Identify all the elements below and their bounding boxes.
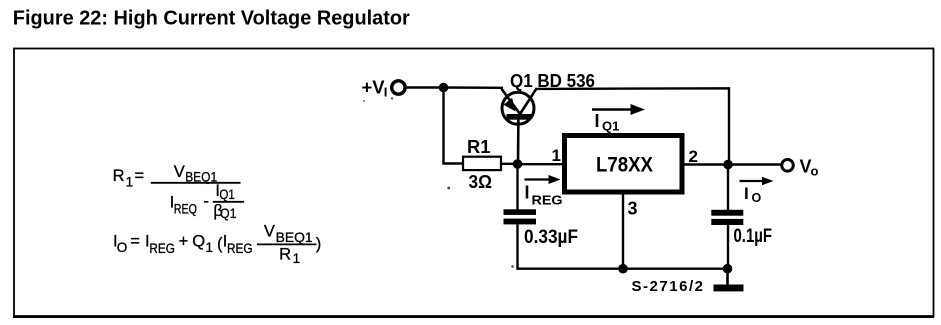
svg-text:I: I xyxy=(744,184,749,203)
svg-text:Q1: Q1 xyxy=(219,187,235,202)
label IQ1 xyxy=(595,111,620,134)
svg-text:=: = xyxy=(135,167,145,185)
wire +VI terminal to input junction xyxy=(405,86,443,88)
svg-text:2: 2 xyxy=(689,147,698,166)
svg-text:V: V xyxy=(174,163,185,181)
label Q1 BD 536 xyxy=(510,71,595,91)
wire C1 to ground rail xyxy=(516,224,518,268)
svg-text:3: 3 xyxy=(628,199,638,219)
wire input junction down to R1 left lead xyxy=(444,88,464,164)
wire node 1 down to C1 xyxy=(516,164,518,210)
svg-text:0.1µF: 0.1µF xyxy=(734,226,773,247)
wire C2 to ground rail xyxy=(727,225,729,269)
svg-text:I: I xyxy=(595,111,600,131)
svg-text:0.33µF: 0.33µF xyxy=(524,227,578,248)
formula R1 = VBEQ1 / (IREQ - IQ1/betaQ1) xyxy=(113,163,244,221)
svg-text:O: O xyxy=(752,191,762,205)
node +VI input terminal xyxy=(392,81,405,94)
svg-text:1: 1 xyxy=(552,146,561,165)
label L78XX xyxy=(596,154,653,177)
label R1 xyxy=(467,137,491,157)
pin 3 label xyxy=(628,199,638,219)
wire Q1 base down to node 1 xyxy=(517,118,520,164)
svg-text:+V: +V xyxy=(362,77,386,98)
svg-text:L78XX: L78XX xyxy=(596,154,653,177)
svg-text:1: 1 xyxy=(206,240,214,255)
svg-text:o: o xyxy=(811,164,819,179)
svg-text:1: 1 xyxy=(293,251,301,266)
capacitor C1 xyxy=(504,209,537,224)
svg-text:I: I xyxy=(384,85,388,100)
svg-text:O: O xyxy=(117,240,128,255)
svg-text:Figure 22: High Current Voltag: Figure 22: High Current Voltage Regulato… xyxy=(13,8,410,30)
wire pin 2 to VO terminal xyxy=(684,163,782,165)
wire R1 right lead to node 1 xyxy=(501,163,518,165)
junction output node xyxy=(723,160,733,170)
label IREG xyxy=(525,183,563,208)
svg-text:BEQ1: BEQ1 xyxy=(276,230,313,245)
junction pin 3 ground xyxy=(618,264,628,274)
wire pin 3 to ground rail xyxy=(622,194,624,269)
svg-text:REG: REG xyxy=(149,241,175,256)
label S-2716/2 xyxy=(632,278,704,295)
regulator U1 L78XX xyxy=(565,136,683,193)
svg-text:Q: Q xyxy=(192,233,205,251)
junction C2 ground xyxy=(723,264,733,274)
current arrow IREG xyxy=(525,175,561,184)
svg-text:-: - xyxy=(203,193,209,211)
wire Q1 collector to output node (top rail, down right side) xyxy=(535,88,729,164)
svg-text:R: R xyxy=(113,167,125,185)
svg-text:=: = xyxy=(130,233,140,251)
svg-text:R1: R1 xyxy=(467,137,491,157)
label IO xyxy=(744,184,762,205)
pin 1 label xyxy=(552,146,561,165)
wire node 1 to pin 1 of U1 xyxy=(518,163,567,165)
wire output node down to C2 xyxy=(727,165,729,211)
ground rail xyxy=(516,268,728,270)
svg-text:+: + xyxy=(179,233,189,251)
label 3 ohm xyxy=(469,172,493,192)
svg-text:3Ω: 3Ω xyxy=(469,172,493,192)
junction node 1 (regulator input) xyxy=(513,159,523,169)
svg-text:): ) xyxy=(316,235,322,253)
svg-text:REG: REG xyxy=(227,241,253,256)
label 0.1uF xyxy=(734,226,773,247)
svg-text:BEQ1: BEQ1 xyxy=(185,169,217,184)
figure caption xyxy=(13,8,410,30)
svg-text:V: V xyxy=(264,223,275,241)
label +VI xyxy=(362,77,388,100)
capacitor C2 xyxy=(711,210,743,225)
svg-text:I: I xyxy=(525,183,530,203)
svg-text:REG: REG xyxy=(532,193,563,208)
svg-text:R: R xyxy=(279,245,291,263)
junction input node xyxy=(439,83,449,93)
svg-text:Q1: Q1 xyxy=(220,206,237,221)
svg-text:1: 1 xyxy=(126,175,134,190)
svg-text:S-2716/2: S-2716/2 xyxy=(632,278,704,295)
resistor R1 xyxy=(463,157,501,170)
svg-text:REQ: REQ xyxy=(174,201,197,216)
transistor Q1 (PNP) xyxy=(502,89,537,124)
label 0.33uF xyxy=(524,227,578,248)
pin 2 label xyxy=(689,147,698,166)
current arrow IQ1 xyxy=(592,104,645,115)
formula IO = IREG + Q1 (IREG VBEQ1/R1) xyxy=(113,223,321,266)
wire input junction to Q1 emitter xyxy=(444,86,504,89)
node VO output terminal xyxy=(782,160,794,172)
current arrow IO xyxy=(740,177,774,186)
label VO xyxy=(800,157,819,179)
ground xyxy=(714,269,744,292)
svg-text:Q1: Q1 xyxy=(602,119,619,134)
